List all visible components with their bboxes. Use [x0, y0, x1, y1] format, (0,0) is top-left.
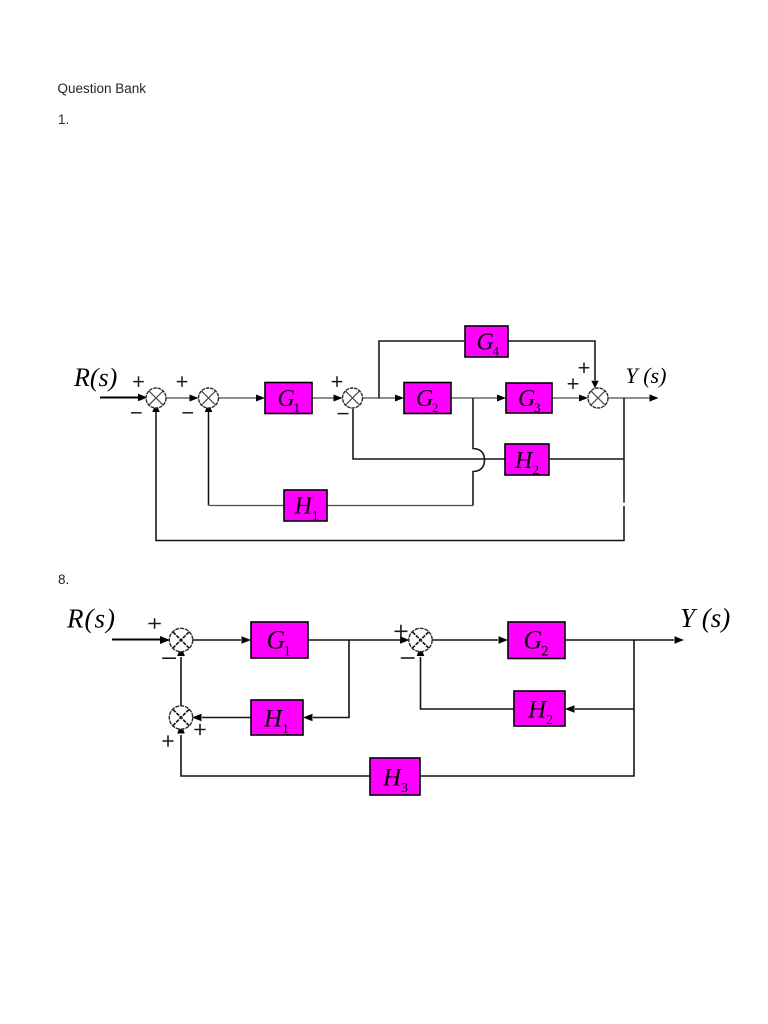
svg-text:H: H: [263, 706, 284, 733]
svg-text:Y (s): Y (s): [626, 363, 667, 388]
svg-text:1: 1: [294, 400, 301, 415]
svg-text:1.: 1.: [58, 112, 69, 127]
svg-text:G: G: [518, 386, 535, 412]
svg-text:R(s): R(s): [73, 363, 117, 392]
svg-text:R(s): R(s): [66, 604, 116, 634]
svg-text:G: G: [416, 386, 433, 412]
svg-text:1: 1: [312, 508, 319, 523]
svg-text:3: 3: [401, 781, 408, 796]
svg-text:G: G: [278, 386, 295, 412]
svg-text:1: 1: [282, 722, 289, 737]
svg-text:2: 2: [541, 644, 549, 660]
svg-text:H: H: [294, 494, 314, 520]
svg-text:H: H: [382, 765, 403, 792]
svg-text:3: 3: [534, 400, 541, 415]
svg-text:G: G: [524, 626, 543, 655]
svg-text:8.: 8.: [58, 572, 69, 587]
svg-text:2: 2: [533, 462, 540, 477]
svg-text:Y (s): Y (s): [680, 603, 730, 633]
svg-text:G: G: [477, 330, 494, 356]
svg-text:Question Bank: Question Bank: [58, 81, 147, 96]
svg-text:2: 2: [546, 713, 553, 728]
svg-text:H: H: [514, 448, 534, 474]
svg-text:H: H: [527, 697, 548, 724]
svg-text:1: 1: [284, 644, 292, 660]
svg-text:4: 4: [493, 344, 500, 359]
svg-text:2: 2: [432, 400, 439, 415]
